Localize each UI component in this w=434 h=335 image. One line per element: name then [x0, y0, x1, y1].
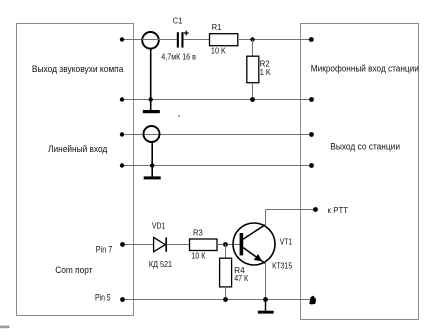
resistor R2: [247, 56, 259, 82]
block: radio station (right box): [301, 24, 419, 320]
wire: emitter junction down to ground: [265, 300, 267, 312]
svg-text:10 K: 10 K: [211, 46, 227, 55]
svg-text:R3: R3: [193, 229, 203, 238]
node: junction jack J1 sleeve / ground wire: [149, 97, 153, 101]
svg-text:VT1: VT1: [280, 237, 293, 246]
resistor R3: [190, 239, 218, 251]
node: ground wire left terminal: [120, 97, 124, 101]
ground (under jack J2): [144, 176, 161, 179]
wire: sound output to jack J1: [122, 39, 142, 41]
svg-text:VD1: VD1: [152, 221, 166, 230]
svg-text:4,7мК 16 в: 4,7мК 16 в: [161, 52, 196, 61]
wire: junction down to R2: [252, 40, 254, 57]
diode VD1: [154, 237, 167, 251]
node: ground wire right terminal: [309, 97, 314, 102]
svg-text:Pin 5: Pin 5: [95, 292, 111, 302]
node: junction R4 / Pin 5 wire: [223, 297, 228, 302]
ground (emitter): [258, 311, 274, 314]
svg-text:R1: R1: [212, 23, 222, 32]
wire: R2 bottom to ground wire: [252, 83, 254, 100]
node: PTT terminal: [313, 207, 318, 212]
wire: VD1 to R3: [166, 244, 189, 246]
svg-text:1 K: 1 K: [260, 68, 272, 77]
svg-text:Микрофонный вход станции: Микрофонный вход станции: [311, 64, 419, 74]
stray mark: small dot artifact: [178, 115, 180, 117]
resistor R4: [220, 258, 232, 287]
svg-text:10 К: 10 К: [192, 251, 206, 260]
node: station output right terminal (wire 3): [309, 132, 314, 137]
capacitor C1: [177, 31, 189, 48]
wire: R4 bottom to Pin 5 wire: [225, 287, 227, 300]
node: wire 4 right terminal: [309, 163, 314, 168]
wire: junction down to R4: [225, 245, 227, 259]
wire: common ground wire (sound): [122, 99, 312, 101]
wire: R3 to base of VT1: [217, 244, 240, 246]
wire: R1 to mic input: [238, 39, 311, 41]
transistor VT1: [233, 223, 275, 265]
node: Pin 5 wire right terminal (smudged): [309, 296, 316, 305]
node: junction R1/R2: [250, 37, 254, 41]
svg-text:47 К: 47 К: [234, 274, 248, 283]
svg-text:Pin 7: Pin 7: [96, 244, 112, 254]
node: junction R2 / ground wire: [250, 97, 255, 102]
wire: line input to jack J2: [122, 134, 312, 136]
wire: collector up: [265, 210, 267, 225]
wire: through jack J1 to C1: [142, 39, 177, 41]
node: Pin 5 terminal: [120, 297, 125, 302]
node: junction R3/R4/base: [223, 242, 228, 247]
node: wire 4 left terminal: [120, 163, 124, 167]
svg-text:КД 521: КД 521: [149, 260, 173, 269]
wire: jack J1 sleeve down to ground: [150, 48, 152, 110]
resistor R1: [210, 34, 238, 46]
node: junction emitter / Pin 5 wire: [263, 297, 268, 302]
wire: Pin 5 common: [123, 299, 312, 301]
wire: jack J2 sleeve down to ground: [151, 142, 153, 177]
svg-text:C1: C1: [173, 17, 183, 26]
connector jack J1 (sound output): [142, 32, 159, 49]
ground (under jack J1): [143, 110, 160, 113]
block: computer (left box): [17, 24, 134, 316]
node: line input terminal: [120, 132, 124, 136]
svg-text:Выход со станции: Выход со станции: [330, 142, 400, 152]
wire: C1 to R1: [184, 39, 210, 41]
node: Pin 7 terminal: [120, 242, 125, 247]
svg-text:КТ315: КТ315: [272, 262, 293, 271]
node: mic input terminal: [309, 37, 314, 42]
svg-text:Линейный вход: Линейный вход: [48, 144, 108, 154]
node: sound output terminal: [120, 37, 124, 41]
wire: emitter down to Pin 5 wire: [265, 263, 267, 299]
wire: station output ground wire: [122, 165, 312, 167]
svg-text:Выход звуковухи компа: Выход звуковухи компа: [32, 64, 124, 74]
node: junction jack J2 sleeve / wire 4: [150, 163, 154, 167]
wire: Pin 7 to diode VD1: [123, 244, 154, 246]
svg-text:Com порт: Com порт: [55, 265, 92, 275]
wire: collector to PTT: [266, 209, 316, 211]
connector jack J2 (line input): [144, 126, 160, 142]
stray mark: left margin dash: [0, 326, 10, 329]
svg-text:к PTT: к PTT: [328, 205, 349, 215]
